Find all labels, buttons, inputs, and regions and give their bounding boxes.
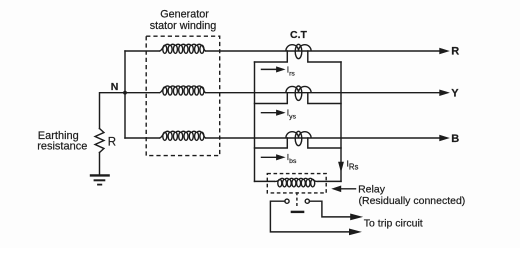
svg-text:resistance: resistance bbox=[37, 141, 87, 153]
svg-text:IRs: IRs bbox=[347, 159, 359, 172]
svg-text:N: N bbox=[111, 81, 119, 93]
svg-text:R: R bbox=[108, 137, 116, 149]
svg-text:C.T: C.T bbox=[290, 29, 308, 41]
svg-text:B: B bbox=[451, 133, 459, 145]
svg-text:Y: Y bbox=[451, 88, 459, 100]
svg-text:stator winding: stator winding bbox=[150, 20, 217, 32]
svg-text:Ibs: Ibs bbox=[287, 152, 297, 165]
svg-text:To trip circuit: To trip circuit bbox=[364, 218, 423, 230]
svg-text:Iys: Iys bbox=[287, 108, 297, 121]
svg-text:(Residually connected): (Residually connected) bbox=[359, 195, 466, 207]
svg-text:Generator: Generator bbox=[160, 8, 209, 20]
svg-text:Irs: Irs bbox=[287, 64, 296, 77]
svg-text:R: R bbox=[451, 46, 459, 58]
